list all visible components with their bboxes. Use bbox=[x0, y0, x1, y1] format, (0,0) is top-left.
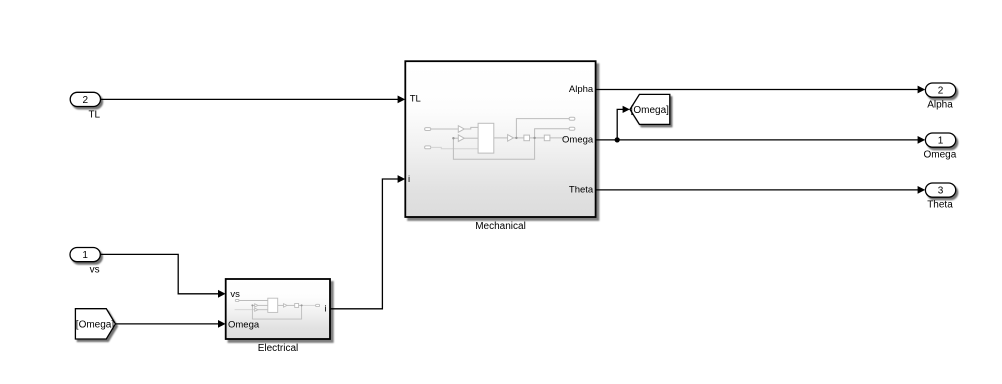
svg-text:Omega: Omega bbox=[562, 134, 594, 145]
wire Electrical i to Mechanical i bbox=[330, 175, 405, 309]
wire Alpha to outport 2 bbox=[596, 86, 925, 94]
outport 2 (Alpha) bbox=[925, 83, 955, 111]
svg-text:1: 1 bbox=[82, 250, 88, 261]
svg-text:1: 1 bbox=[938, 136, 944, 147]
svg-text:2: 2 bbox=[83, 95, 89, 106]
svg-text:2: 2 bbox=[938, 86, 944, 97]
riser to second oval bbox=[535, 129, 570, 138]
svg-text:[Omega]: [Omega] bbox=[631, 105, 670, 116]
svg-text:i: i bbox=[408, 174, 410, 185]
gain triangle 1 bbox=[458, 126, 464, 133]
svg-text:[Omega]: [Omega] bbox=[76, 319, 115, 330]
integrator square 1 bbox=[524, 135, 530, 141]
integrator square 2 bbox=[544, 135, 550, 141]
subsystem Mechanical bbox=[405, 61, 595, 217]
svg-text:Omega: Omega bbox=[924, 150, 957, 161]
wire bbox=[431, 147, 478, 148]
junction on Omega wire bbox=[615, 137, 620, 142]
svg-text:Theta: Theta bbox=[569, 184, 594, 195]
gain triangle 2 bbox=[458, 135, 464, 142]
Mechanical port labels bbox=[408, 84, 594, 195]
wire bbox=[530, 137, 545, 139]
svg-text:TL: TL bbox=[410, 94, 421, 105]
wire bbox=[464, 127, 478, 129]
wire vs to Electrical bbox=[100, 254, 225, 297]
riser to top oval bbox=[516, 119, 569, 138]
faint omega input wire bbox=[235, 309, 255, 311]
svg-text:TL: TL bbox=[88, 110, 100, 121]
gain triangle e1 bbox=[255, 304, 258, 307]
feedback loop bbox=[252, 305, 301, 319]
oval out (alpha) bbox=[569, 117, 575, 120]
junction dots bbox=[251, 304, 302, 306]
outport 1 (Omega) bbox=[924, 133, 957, 161]
wire Theta to outport 3 bbox=[596, 186, 925, 194]
feedback loop bbox=[453, 138, 534, 159]
oval in2 bbox=[425, 146, 431, 149]
subsystem Electrical bbox=[226, 279, 330, 339]
junction dots bbox=[452, 137, 536, 140]
svg-text:Alpha: Alpha bbox=[569, 84, 594, 95]
svg-text:Mechanical: Mechanical bbox=[475, 221, 526, 232]
wire bbox=[278, 304, 284, 306]
branch wire to Goto tag bbox=[617, 106, 630, 140]
oval in1 bbox=[425, 128, 431, 131]
svg-text:Theta: Theta bbox=[927, 200, 953, 211]
wire Omega to outport 1 bbox=[596, 136, 925, 144]
gain triangle e3 bbox=[284, 304, 288, 307]
wire bbox=[513, 137, 524, 139]
oval in vs bbox=[235, 300, 239, 302]
from tag [Omega] bbox=[75, 309, 115, 339]
svg-text:i: i bbox=[324, 304, 326, 315]
Mechanical inner preview diagram bbox=[425, 117, 575, 159]
wire bbox=[252, 304, 254, 306]
wire bbox=[431, 128, 459, 130]
goto tag [Omega] bbox=[630, 94, 670, 124]
gain triangle 3 bbox=[508, 135, 514, 142]
Electrical inner preview diagram bbox=[235, 298, 320, 319]
wire bbox=[239, 300, 268, 302]
state-space block bbox=[478, 123, 494, 153]
svg-text:Alpha: Alpha bbox=[927, 100, 953, 111]
oval out (omega) bbox=[569, 127, 575, 130]
oval out i bbox=[316, 304, 320, 306]
inport 1 (vs) bbox=[70, 248, 100, 276]
wire bbox=[550, 137, 566, 139]
wire bbox=[453, 137, 458, 139]
svg-text:vs: vs bbox=[230, 289, 240, 300]
wire TL to Mechanical bbox=[101, 96, 406, 104]
integrator square bbox=[295, 304, 299, 308]
svg-text:Electrical: Electrical bbox=[258, 343, 299, 354]
svg-text:vs: vs bbox=[90, 265, 100, 276]
inport 2 (TL) bbox=[70, 92, 100, 120]
wire bbox=[494, 137, 508, 139]
svg-text:3: 3 bbox=[938, 186, 944, 197]
Electrical port labels bbox=[228, 289, 327, 331]
gain triangle e2 bbox=[255, 308, 258, 311]
outport 3 (Theta) bbox=[925, 183, 955, 211]
block rect bbox=[268, 298, 278, 312]
wire from-tag to Electrical Omega bbox=[115, 320, 225, 328]
svg-text:Omega: Omega bbox=[228, 320, 260, 331]
